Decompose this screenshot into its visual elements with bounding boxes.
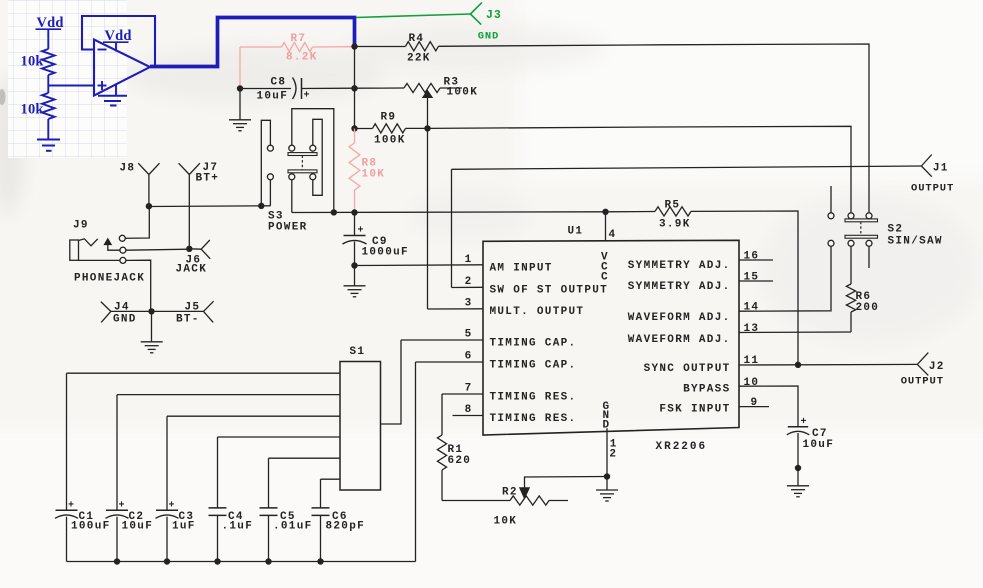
- ground (inset divider): [37, 140, 60, 151]
- junction C7 / ground: [795, 465, 801, 471]
- svg-text:SW OF ST OUTPUT: SW OF ST OUTPUT: [490, 284, 609, 296]
- svg-text:100uF: 100uF: [71, 520, 111, 532]
- svg-text:10K: 10K: [494, 515, 518, 527]
- svg-text:10k: 10k: [21, 54, 45, 70]
- label C1 100uF: [68, 500, 111, 532]
- wire: C9 node to U1 pin 1: [355, 264, 484, 267]
- svg-text:R2: R2: [502, 487, 518, 499]
- wire: R9 node riser to pin 3: [427, 128, 429, 309]
- svg-text:AM INPUT: AM INPUT: [490, 262, 553, 274]
- U1 pin 13 WAVEFORM ADJ.: [628, 323, 760, 346]
- junction J8 / jack bus: [146, 203, 152, 209]
- label S3 POWER: [268, 211, 308, 234]
- svg-text:3: 3: [465, 298, 473, 310]
- S3 shorting bars and mechanical link: [288, 153, 317, 173]
- wire: divider midpoint to op-amp noninverting input: [48, 75, 94, 93]
- label J2 OUTPUT: [901, 361, 945, 388]
- svg-text:WAVEFORM ADJ.: WAVEFORM ADJ.: [628, 334, 731, 346]
- U1 pin 15 SYMMETRY ADJ. (stub): [628, 272, 773, 293]
- capacitor C8: [240, 78, 355, 100]
- svg-text:WAVEFORM ADJ.: WAVEFORM ADJ.: [628, 312, 731, 324]
- svg-text:9: 9: [751, 397, 759, 409]
- capacitor C9 1000uF: [343, 213, 367, 266]
- svg-text:10k: 10k: [21, 102, 45, 118]
- capacitor C5 .01uF: [260, 458, 278, 561]
- wire: S1 common to pin 5: [381, 340, 402, 424]
- wire: R1 to R2: [442, 500, 510, 502]
- label C7 10uF with polarity: [801, 417, 835, 451]
- IC U1 XR2206 outline: [483, 240, 739, 435]
- power rail Vdd (divider, inset): [36, 15, 64, 49]
- junction C6 / ground bus: [317, 558, 323, 564]
- capacitor C1 100uF: [55, 373, 78, 561]
- label J6 JACK: [176, 255, 208, 276]
- junction C3 / ground bus: [164, 558, 170, 564]
- op-amp U-inset (buffer): [94, 40, 150, 96]
- svg-text:TIMING RES.: TIMING RES.: [490, 413, 577, 425]
- U1 pin 9 FSK INPUT (stub): [659, 397, 769, 416]
- svg-text:J8: J8: [120, 163, 136, 175]
- resistor R8 10K (pink): [354, 129, 356, 144]
- svg-text:J3: J3: [486, 9, 502, 22]
- label R2 10K: [494, 487, 518, 528]
- label C4 .1uF: [222, 511, 254, 533]
- svg-text:3.9K: 3.9K: [659, 219, 691, 231]
- resistor R3 100K (rheostat): [355, 87, 405, 89]
- label C8 10uF with polarity: [257, 77, 310, 103]
- junction pin 4 / R5 / Vcc bus: [602, 209, 608, 215]
- resistor R6 200: [846, 284, 855, 312]
- svg-text:.1uF: .1uF: [222, 520, 254, 532]
- resistor R5 3.9K: [606, 211, 656, 213]
- S2 shorting bars and mechanical link: [845, 219, 878, 238]
- svg-text:+: +: [801, 417, 807, 428]
- label C9 1000uF with polarity: [358, 226, 409, 259]
- svg-text:+: +: [358, 226, 364, 237]
- svg-text:R9: R9: [381, 112, 397, 124]
- wire: pin 6 riser to timing-cap ground bus: [415, 362, 417, 562]
- label J3 GND: [478, 9, 502, 42]
- svg-text:J5: J5: [185, 302, 201, 314]
- wire: battery bus J8 to S3: [149, 205, 271, 208]
- label J4 GND: [113, 302, 137, 326]
- connector J1: [921, 155, 931, 177]
- junction C4 / ground bus: [214, 558, 220, 564]
- svg-text:7: 7: [465, 383, 473, 395]
- svg-text:BT-: BT-: [176, 314, 200, 326]
- power rail Vdd (op-amp, inset): [103, 28, 132, 52]
- R3 wiper arrow: [423, 91, 433, 129]
- ground at C9: [354, 266, 356, 286]
- label R9 100K: [374, 112, 406, 147]
- wire: R7 down to C8 node (pink): [239, 47, 241, 89]
- svg-text:820pF: 820pF: [326, 520, 366, 532]
- svg-text:1uF: 1uF: [172, 520, 196, 532]
- junction C5 / ground bus: [265, 558, 271, 564]
- U1 pin 6 TIMING CAP.: [416, 351, 577, 372]
- svg-text:4: 4: [609, 229, 617, 241]
- svg-text:8.2K: 8.2K: [286, 52, 318, 64]
- label J7 BT+: [196, 162, 220, 185]
- wire: C6 to S1: [321, 478, 341, 480]
- S3 bottom-left contact drop to Vcc bus: [291, 180, 293, 213]
- svg-text:MULT. OUTPUT: MULT. OUTPUT: [490, 306, 585, 318]
- svg-text:16: 16: [744, 251, 760, 263]
- wire: node to connector J3 (green): [356, 14, 470, 18]
- resistor R7 8.2K (pink): [240, 46, 282, 48]
- wire: op-amp output thick blue trace to node A: [150, 18, 355, 67]
- svg-text:C8: C8: [271, 77, 287, 89]
- S3 left pole contacts: [267, 145, 273, 180]
- svg-text:JACK: JACK: [176, 264, 208, 276]
- junction Vcc bus / S3 frame: [331, 209, 337, 215]
- wire: lower 10k to ground: [47, 119, 49, 139]
- svg-text:620: 620: [448, 455, 472, 467]
- svg-text:J1: J1: [933, 162, 949, 174]
- svg-text:+: +: [304, 91, 310, 102]
- svg-text:+: +: [119, 500, 125, 511]
- svg-text:100K: 100K: [447, 87, 479, 99]
- svg-text:10uF: 10uF: [257, 91, 289, 103]
- U1 pin 5 TIMING CAP.: [401, 329, 576, 350]
- svg-text:1000uF: 1000uF: [362, 247, 409, 259]
- svg-text:OUTPUT: OUTPUT: [901, 376, 944, 388]
- ground at pin 12: [606, 477, 608, 490]
- wire: pin 14 to S2 left pole: [739, 246, 831, 311]
- svg-text:R4: R4: [409, 33, 425, 45]
- wire: J1 line down to pin 2: [451, 169, 453, 287]
- U1 pin 8 TIMING RES. (stub): [453, 404, 577, 425]
- svg-text:R7: R7: [291, 33, 307, 45]
- junction Vcc bus / R8 / C9: [351, 209, 357, 215]
- label R1 620: [448, 444, 472, 467]
- svg-text:10K: 10K: [362, 169, 386, 181]
- connector J2: [917, 353, 928, 376]
- wire: S2 pole A lower contact to R6: [850, 246, 852, 284]
- wire: C3 to S1: [167, 415, 340, 417]
- wire: pin 10 to C7: [739, 386, 798, 427]
- wire: pin 13 to R6: [739, 331, 851, 334]
- svg-text:J4: J4: [114, 302, 130, 314]
- U1 pin 7 TIMING RES.: [442, 383, 576, 404]
- svg-text:2: 2: [609, 449, 617, 461]
- svg-text:XR2206: XR2206: [656, 441, 708, 453]
- wire: R4 to S2 pole B: [439, 44, 870, 213]
- S3 center pole contacts: [289, 145, 316, 180]
- S2 contacts: [828, 213, 872, 247]
- svg-text:S2: S2: [888, 224, 904, 236]
- svg-text:TIMING CAP.: TIMING CAP.: [490, 337, 577, 349]
- U1 pin 3 MULT. OUTPUT: [428, 298, 585, 318]
- connector J7 BT+: [179, 163, 200, 249]
- wire: timing cap ground bus: [67, 561, 416, 563]
- resistor 10k lower (inset divider): [42, 93, 55, 119]
- svg-text:SIN/SAW: SIN/SAW: [888, 236, 943, 248]
- svg-text:PHONEJACK: PHONEJACK: [74, 273, 145, 285]
- label C5 .01uF: [273, 511, 313, 533]
- connector J5 BT-: [152, 301, 214, 322]
- label R6 200: [856, 291, 880, 314]
- ground (op-amp, inset): [98, 84, 127, 106]
- junction pin 11 / R5: [795, 362, 801, 368]
- switch S1 body: [340, 362, 381, 491]
- switch S3 POWER - left pole frame: [261, 120, 270, 206]
- junction rail/R9/R8: [351, 125, 357, 131]
- svg-text:8: 8: [465, 404, 473, 416]
- potentiometer R2 10K: [510, 496, 549, 505]
- U1 pin 12 GND: [603, 401, 618, 477]
- svg-text:+: +: [169, 500, 175, 511]
- label R3 100K: [444, 77, 479, 99]
- svg-text:R5: R5: [665, 200, 681, 212]
- svg-text:D: D: [603, 420, 611, 432]
- capacitor C6 820pF: [312, 479, 330, 561]
- wire: C4 to S1: [218, 436, 341, 438]
- label R4 22K: [407, 33, 431, 65]
- wire: R9 node to S2 pole A: [428, 126, 852, 213]
- svg-text:J9: J9: [73, 220, 89, 232]
- capacitor C2 10uF: [106, 395, 129, 562]
- junction C9 / pin 1 / ground: [351, 262, 357, 268]
- junction C8 node: [237, 85, 243, 91]
- ground at C8: [239, 89, 241, 120]
- wire: R5 to SYNC OUTPUT node: [691, 211, 798, 365]
- wire: C5 to S1: [269, 457, 341, 459]
- wire: pin 11 to connector J2: [739, 363, 917, 366]
- svg-text:BT+: BT+: [196, 173, 220, 185]
- svg-text:+: +: [68, 500, 74, 511]
- wire: C1 to S1: [67, 372, 341, 374]
- svg-text:5: 5: [465, 329, 473, 341]
- J9 terminals: [119, 235, 126, 263]
- wire: Vcc bus from S3 to pin 4 node: [292, 211, 606, 214]
- switch S2 left pole stub: [830, 186, 832, 213]
- svg-text:POWER: POWER: [268, 222, 308, 234]
- U1 pin 14 WAVEFORM ADJ.: [628, 302, 760, 324]
- label C3 1uF: [169, 500, 196, 532]
- label S2 SIN/SAW: [888, 224, 943, 248]
- U1 pin 10 BYPASS: [683, 377, 759, 395]
- U1 pin 1 AM INPUT: [465, 254, 553, 274]
- svg-text:6: 6: [465, 351, 473, 363]
- svg-text:1: 1: [465, 254, 473, 266]
- connector J4 GND: [101, 302, 152, 323]
- wire: R7 to node A (pink): [313, 46, 355, 48]
- svg-text:SYMMETRY ADJ.: SYMMETRY ADJ.: [628, 260, 731, 272]
- junction J4/J5/ground: [148, 308, 154, 314]
- junction J7 / J6 node: [186, 246, 192, 252]
- svg-text:GND: GND: [478, 30, 499, 42]
- R2 wiper arrow and tap to pin 12 ground: [520, 477, 607, 499]
- svg-text:.01uF: .01uF: [273, 520, 313, 532]
- wire: jack switch contact to battery bus: [125, 207, 149, 239]
- svg-text:BYPASS: BYPASS: [683, 383, 730, 395]
- resistor 10k upper (inset divider): [42, 49, 55, 75]
- label J5 BT-: [176, 302, 200, 326]
- connector J8: [138, 163, 159, 206]
- connector J6 JACK: [189, 240, 210, 259]
- svg-text:10uF: 10uF: [803, 439, 835, 451]
- capacitor C4 .1uF: [209, 437, 227, 562]
- S2 pole B lower stub: [868, 246, 870, 268]
- resistor R4 22K: [355, 46, 406, 48]
- svg-text:GND: GND: [113, 314, 137, 326]
- ground at J4/J5 node: [151, 311, 153, 341]
- wire: main rail node A to R9 node: [354, 47, 356, 129]
- J9 tip wiper arrow: [104, 239, 120, 251]
- U1 pin 2 SW OF ST OUTPUT: [452, 276, 609, 296]
- svg-text:200: 200: [856, 302, 880, 314]
- junction R9 / R3 wiper / pin 3 riser: [424, 125, 430, 131]
- junction rail/C8/R3: [351, 85, 357, 91]
- svg-text:FSK INPUT: FSK INPUT: [659, 404, 730, 416]
- S3 center pole outer frame wire: [292, 109, 334, 213]
- label C2 10uF: [119, 500, 154, 532]
- wire: jack tip terminal to J6/J7 node: [126, 249, 189, 250]
- connector J3: [470, 2, 482, 24]
- svg-text:100K: 100K: [374, 135, 406, 147]
- S3 center pole inner frame wire: [313, 119, 322, 195]
- svg-text:TIMING RES.: TIMING RES.: [490, 391, 577, 403]
- junction C2 / ground bus: [114, 558, 120, 564]
- ground at C7: [797, 468, 799, 486]
- svg-text:TIMING CAP.: TIMING CAP.: [490, 359, 577, 371]
- label J1 OUTPUT: [911, 162, 954, 194]
- junction bus / S3 left pole: [258, 203, 264, 209]
- resistor R1 620: [441, 394, 443, 435]
- phone jack J9 body: [70, 239, 98, 260]
- svg-text:15: 15: [744, 272, 760, 284]
- junction pin 12 / R2 wiper: [604, 473, 610, 479]
- wire: C2 to S1: [117, 394, 340, 396]
- svg-text:2: 2: [465, 276, 473, 288]
- svg-text:10uF: 10uF: [122, 520, 154, 532]
- wire: J1 output line: [452, 166, 922, 169]
- svg-text:22K: 22K: [407, 53, 431, 65]
- svg-text:SYMMETRY ADJ.: SYMMETRY ADJ.: [628, 281, 731, 293]
- junction node A (blue/R4/R7): [351, 43, 357, 49]
- label R5 3.9K: [659, 200, 691, 231]
- wire: feedback output to inverting input (inset): [82, 16, 155, 66]
- svg-text:J2: J2: [929, 361, 945, 373]
- svg-text:OUTPUT: OUTPUT: [911, 183, 954, 195]
- label C6 820pF: [326, 511, 366, 533]
- U1 pin 4 VCC: [601, 212, 616, 284]
- svg-text:U1: U1: [568, 226, 584, 238]
- wire: jack sleeve to body and to J4/J5 node: [79, 260, 151, 311]
- resistor R9 100K: [355, 128, 373, 130]
- capacitor C3 1uF: [156, 416, 179, 561]
- U1 pin 11 SYNC OUTPUT: [644, 355, 760, 375]
- U1 pin 16 SYMMETRY ADJ. (stub): [628, 251, 773, 272]
- label R7 8.2K: [286, 33, 318, 64]
- label R8 10K: [362, 158, 386, 181]
- svg-text:13: 13: [744, 323, 760, 335]
- svg-text:SYNC OUTPUT: SYNC OUTPUT: [644, 363, 731, 375]
- svg-text:S1: S1: [350, 346, 366, 358]
- capacitor C7 10uF: [787, 427, 809, 468]
- svg-text:C: C: [601, 272, 609, 284]
- svg-text:10: 10: [744, 377, 760, 389]
